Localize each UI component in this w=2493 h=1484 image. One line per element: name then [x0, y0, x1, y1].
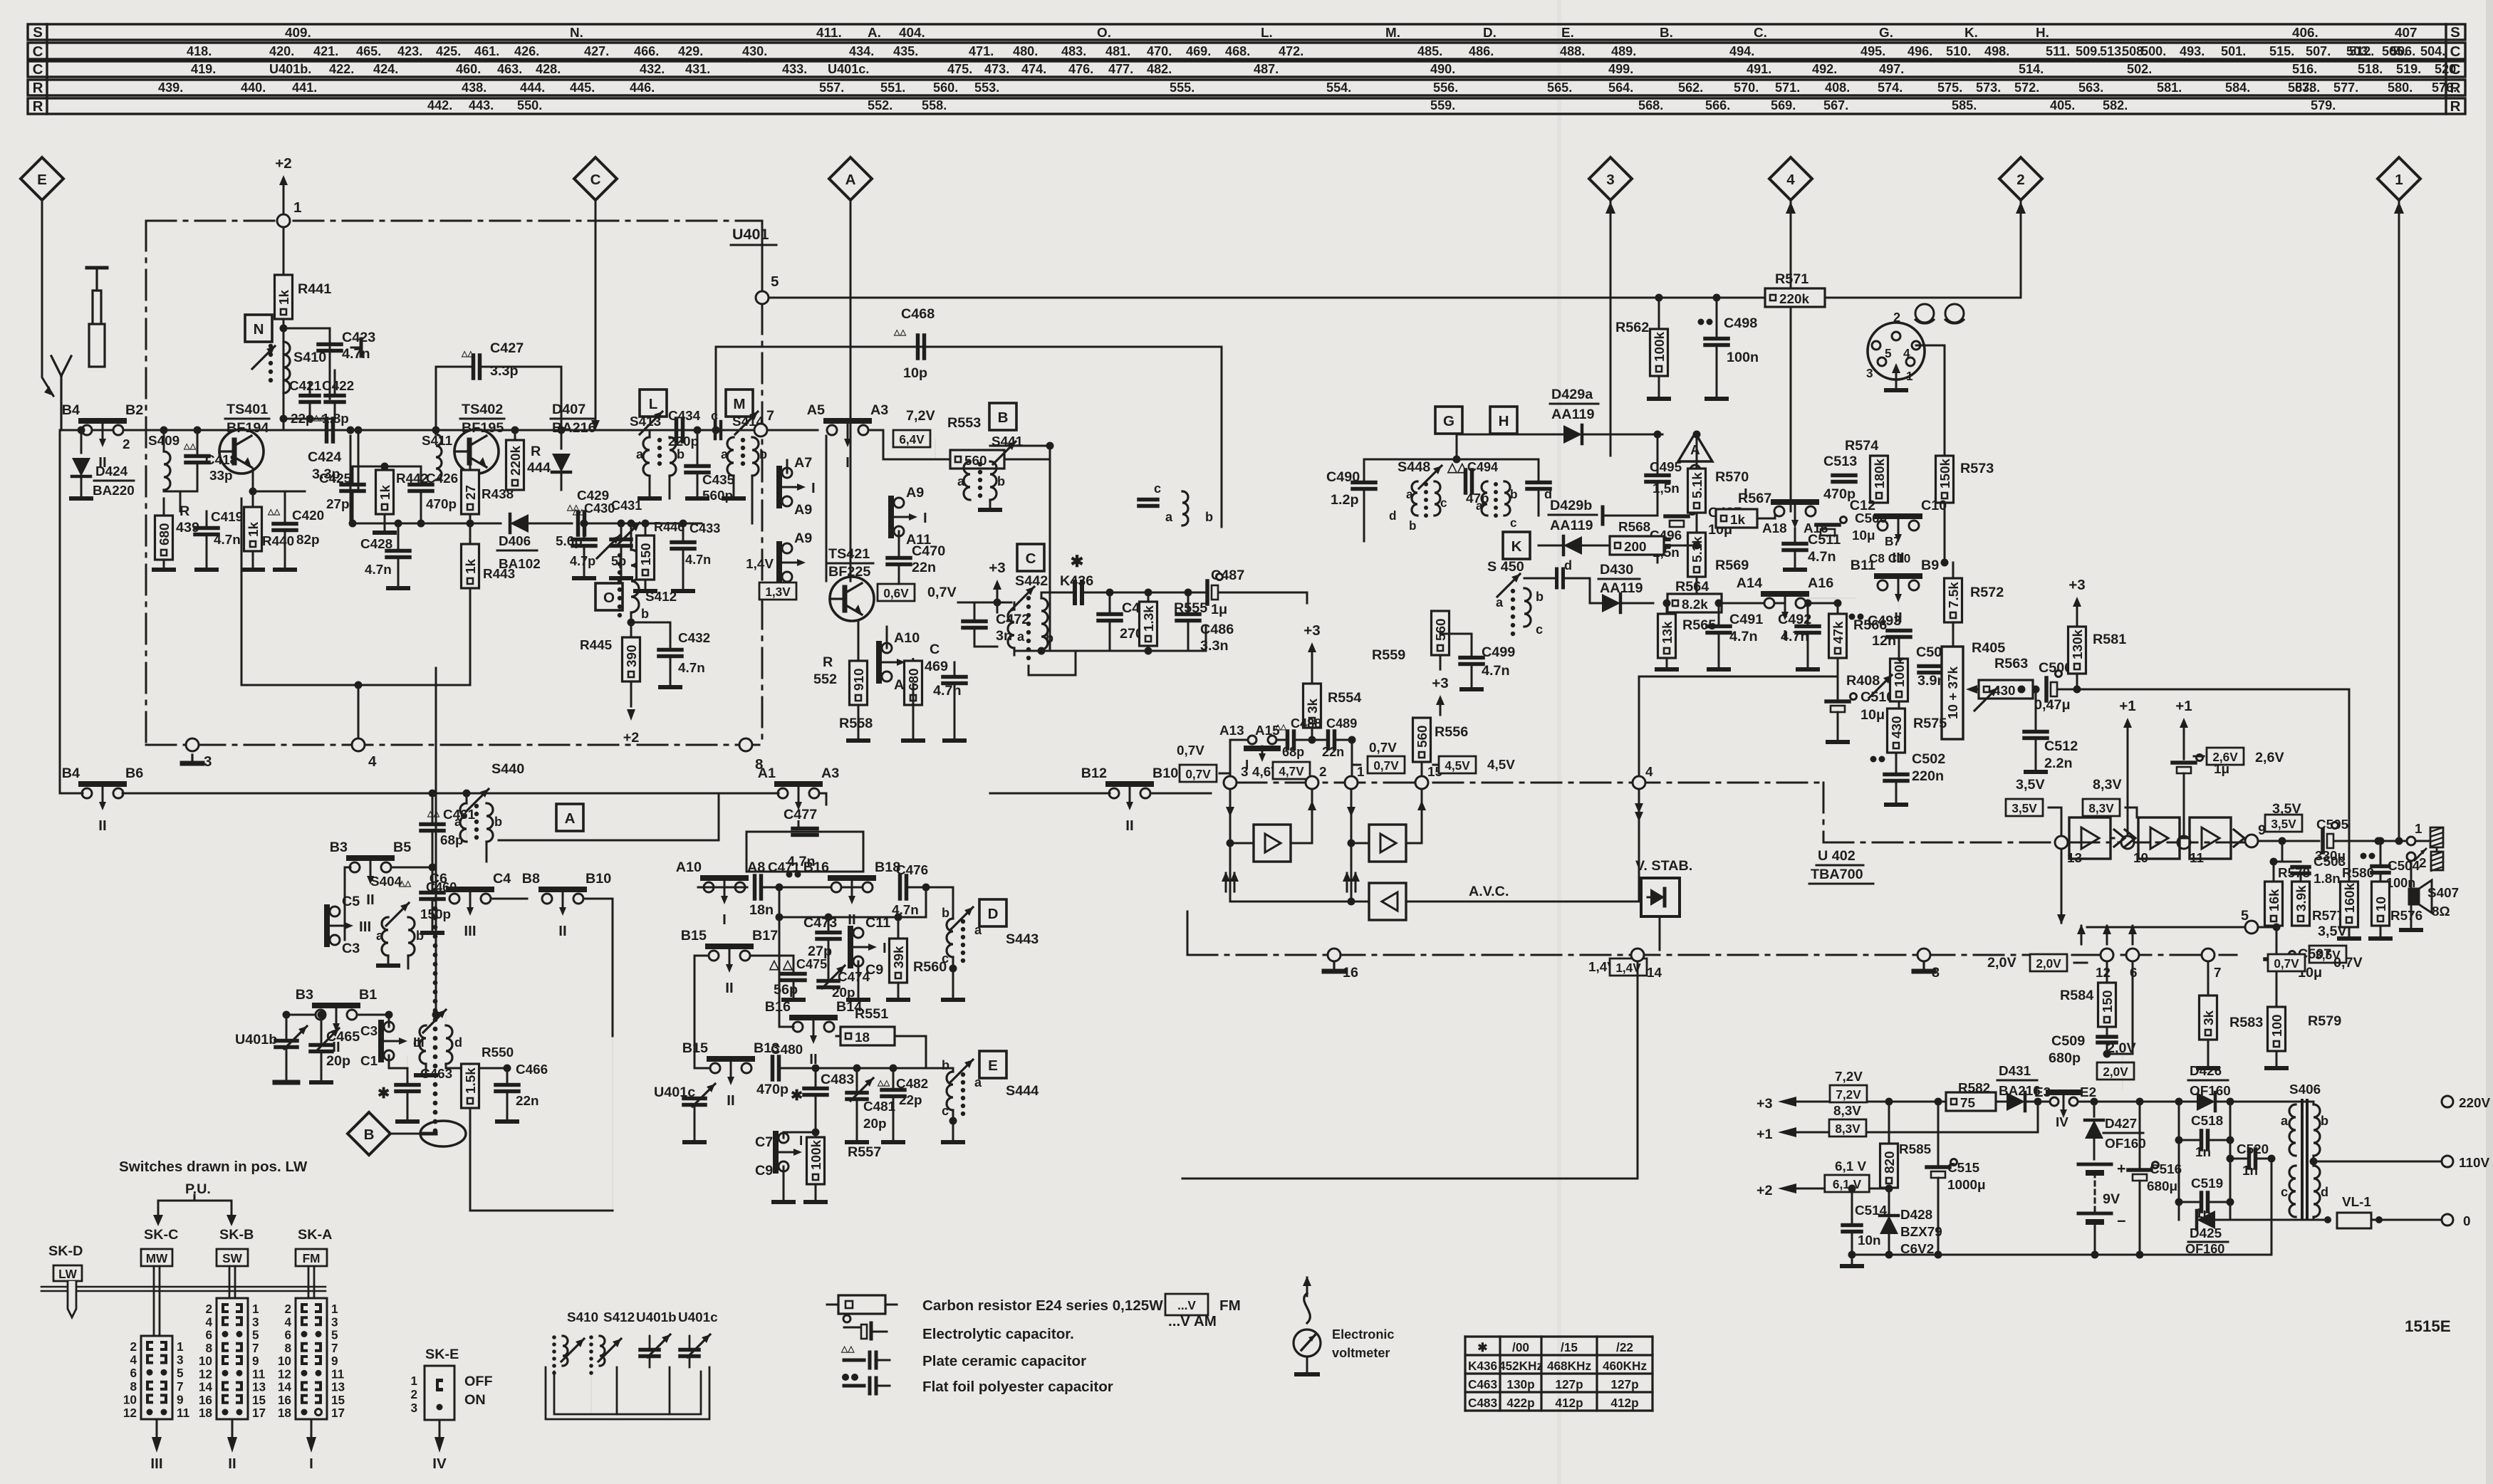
arrow A triangle [1678, 433, 1712, 461]
svg-text:a: a [1476, 498, 1483, 513]
svg-text:445.: 445. [570, 80, 595, 95]
wire to 3 with arrowhead [1610, 200, 1612, 298]
svg-text:485.: 485. [1417, 44, 1442, 58]
svg-text:L.: L. [1261, 26, 1273, 41]
svg-text:2: 2 [410, 1387, 417, 1401]
svg-text:100n: 100n [1727, 350, 1759, 365]
svg-text:480.: 480. [1013, 44, 1038, 58]
svg-text:463.: 463. [497, 62, 522, 76]
svg-text:420.: 420. [269, 44, 294, 58]
svg-text:12: 12 [278, 1367, 291, 1381]
svg-text:431.: 431. [685, 62, 710, 76]
capacitor C504 100n [2361, 853, 2367, 859]
svg-text:3,5V: 3,5V [2011, 801, 2037, 815]
svg-text:4.7p: 4.7p [570, 554, 595, 568]
svg-text:R573: R573 [1960, 461, 1994, 476]
svg-text:563.: 563. [2078, 80, 2103, 95]
resistor R440 1k [244, 507, 262, 551]
svg-text:SK-B: SK-B [219, 1227, 254, 1243]
svg-text:D431: D431 [1999, 1064, 2031, 1079]
svg-text:B4: B4 [62, 765, 80, 781]
node 13 [2055, 836, 2068, 849]
svg-text:II: II [727, 1092, 734, 1109]
svg-text:C431: C431 [611, 498, 642, 513]
component index table [28, 24, 2465, 40]
svg-text:5: 5 [252, 1328, 259, 1342]
electrolytic C500 10u [1816, 523, 1839, 527]
wire from A down [850, 200, 852, 581]
svg-text:1000μ: 1000μ [1947, 1178, 1986, 1193]
svg-text:△ △ C475: △ △ C475 [769, 957, 827, 971]
resistor R560 39k [890, 939, 907, 983]
switch B8-B10 right [542, 894, 552, 904]
svg-text:S: S [2450, 24, 2460, 41]
svg-text:A10: A10 [894, 630, 920, 646]
svg-text:513.: 513. [2100, 44, 2125, 58]
svg-text:△△: △△ [877, 1079, 890, 1087]
svg-text:K.: K. [1964, 26, 1978, 41]
svg-text:68p: 68p [440, 833, 464, 848]
svg-text:418.: 418. [187, 44, 212, 58]
capacitor C469 4.7n [943, 675, 966, 679]
svg-text:486.: 486. [1469, 44, 1494, 58]
resistor R578 16k [2265, 882, 2283, 926]
svg-text:A: A [565, 810, 576, 827]
svg-text:16: 16 [278, 1393, 291, 1407]
svg-text:1k: 1k [1730, 513, 1746, 528]
capacitor C498 100n [1698, 319, 1704, 325]
svg-text:a: a [974, 1075, 982, 1090]
svg-text:A10: A10 [676, 859, 702, 875]
wire +2 to node 1 and R441 [283, 191, 285, 214]
coil S412 with O box [630, 523, 633, 550]
svg-text:2: 2 [130, 1339, 137, 1354]
svg-text:477.: 477. [1108, 62, 1133, 76]
connector diamond 3 [1589, 157, 1632, 200]
svg-text:BF194: BF194 [227, 420, 269, 436]
svg-text:III: III [464, 923, 476, 939]
svg-text:R550: R550 [482, 1045, 514, 1060]
svg-text:4.7n: 4.7n [933, 683, 962, 699]
svg-text:584.: 584. [2225, 80, 2250, 95]
svg-text:433.: 433. [782, 62, 807, 76]
switch B16-B14 [793, 1022, 803, 1032]
svg-text:B17: B17 [752, 928, 778, 944]
svg-text:VL-1: VL-1 [2342, 1195, 2371, 1210]
svg-text:III: III [359, 919, 371, 935]
svg-text:422p: 422p [1506, 1396, 1534, 1410]
svg-text:580.: 580. [2388, 80, 2413, 95]
svg-text:S444: S444 [1006, 1083, 1039, 1099]
svg-text:OF160: OF160 [2190, 1084, 2231, 1099]
svg-text:571.: 571. [1775, 80, 1800, 95]
transformer S444 with E box [979, 1051, 1006, 1078]
svg-text:C7: C7 [755, 1134, 773, 1150]
voltage 4.5V pin 15 [1439, 756, 1476, 773]
svg-text:C.: C. [1754, 26, 1767, 41]
svg-text:C488: C488 [1291, 716, 1321, 731]
trimmer C474 20p [818, 979, 838, 983]
svg-text:12: 12 [123, 1406, 137, 1420]
svg-text:C433: C433 [689, 521, 720, 535]
svg-text:220k: 220k [1779, 292, 1810, 307]
svg-text:d: d [2321, 1185, 2328, 1199]
switch B3-B5 [350, 862, 360, 872]
svg-text:4,5V: 4,5V [1487, 758, 1515, 773]
svg-text:E: E [37, 172, 47, 188]
long vertical from B12 wire [435, 668, 437, 1015]
chevrons between amps [2114, 830, 2125, 847]
contact A9-A11 [894, 498, 904, 508]
svg-text:G: G [1443, 413, 1454, 429]
svg-text:4: 4 [130, 1353, 137, 1367]
capacitor C435 560p [686, 464, 709, 469]
legend electrolytic capacitor [844, 1327, 860, 1329]
svg-text:R551: R551 [855, 1006, 888, 1022]
wire C424 junction down [350, 436, 352, 523]
capacitor C507 10u [2265, 957, 2288, 961]
svg-text:492.: 492. [1812, 62, 1837, 76]
svg-text:9V: 9V [2103, 1191, 2120, 1207]
svg-text:490.: 490. [1430, 62, 1455, 76]
svg-text:150: 150 [2101, 990, 2115, 1013]
svg-text:C516: C516 [2150, 1162, 2182, 1177]
wire R441 to N junction [283, 319, 285, 430]
SK-B stem [229, 1266, 231, 1298]
svg-text:S: S [33, 24, 43, 41]
capacitor C421 [301, 394, 319, 398]
svg-text:b: b [677, 447, 685, 461]
resistor R443 1k [462, 544, 479, 588]
svg-text:I: I [722, 911, 727, 928]
svg-text:564.: 564. [1608, 80, 1633, 95]
svg-text:/22: /22 [1616, 1340, 1633, 1354]
capacitor C512 2.2n [2024, 730, 2047, 734]
diode D427 OF160 [2093, 1102, 2096, 1117]
svg-text:3k: 3k [2202, 1010, 2217, 1025]
svg-text:8: 8 [130, 1379, 137, 1394]
connector diamond A [829, 157, 872, 200]
svg-text:A16: A16 [1808, 575, 1833, 591]
svg-text:407: 407 [2395, 26, 2417, 41]
svg-text:7: 7 [177, 1379, 184, 1394]
svg-text:12: 12 [2096, 966, 2111, 981]
svg-text:MW: MW [146, 1251, 168, 1265]
resistor R572 7.5k [1945, 578, 1962, 622]
svg-text:680μ: 680μ [2147, 1179, 2177, 1194]
svg-text:4.7n: 4.7n [1729, 629, 1758, 644]
svg-text:12n: 12n [1872, 633, 1896, 649]
wire node14 down [1637, 961, 1639, 1179]
svg-text:503.: 503. [2346, 44, 2371, 58]
svg-text:1n: 1n [2242, 1164, 2258, 1179]
svg-text:412p: 412p [1555, 1396, 1583, 1410]
dash-dot bus 3-4 left [146, 744, 759, 746]
svg-text:4.7n: 4.7n [1482, 663, 1510, 679]
svg-text:469: 469 [925, 659, 948, 674]
box letter B [989, 403, 1016, 430]
svg-text:560: 560 [1415, 725, 1430, 748]
connector diamond C [574, 157, 617, 200]
svg-text:R585: R585 [1899, 1142, 1931, 1157]
svg-text:508.: 508. [2122, 44, 2147, 58]
svg-text:R570: R570 [1715, 469, 1749, 485]
switch A18-A16 and C511 [1774, 506, 1784, 516]
svg-text:C481: C481 [863, 1099, 895, 1114]
output jack contacts [2407, 837, 2415, 845]
wires around amplifier 1 [1229, 789, 1232, 894]
svg-text:516.: 516. [2292, 62, 2317, 76]
svg-text:B12: B12 [1081, 765, 1107, 781]
svg-text:U401: U401 [732, 226, 769, 243]
svg-text:435.: 435. [893, 44, 918, 58]
svg-text:B15: B15 [681, 928, 707, 944]
TS401 emitter to ground rail [252, 469, 254, 498]
svg-text:27: 27 [464, 485, 479, 500]
svg-text:C419: C419 [211, 510, 243, 525]
svg-text:495.: 495. [1860, 44, 1885, 58]
capacitor C511 4.7n [1784, 542, 1806, 546]
svg-text:+1: +1 [2119, 698, 2135, 714]
svg-text:820: 820 [1883, 1151, 1898, 1174]
svg-text:8,3V: 8,3V [2088, 801, 2114, 815]
svg-text:b: b [641, 607, 649, 621]
node 3 on IC top rail [1224, 776, 1237, 789]
svg-text:497.: 497. [1879, 62, 1904, 76]
switch bank SK-B contacts [217, 1298, 248, 1419]
svg-text:A9: A9 [794, 502, 812, 518]
svg-text:R405: R405 [1972, 640, 2005, 656]
svg-text:c: c [1440, 496, 1447, 510]
svg-text:474.: 474. [1021, 62, 1046, 76]
svg-text:R441: R441 [298, 281, 331, 297]
svg-text:C491: C491 [1729, 612, 1763, 627]
svg-text:R572: R572 [1970, 585, 2004, 600]
svg-text:1,3V: 1,3V [765, 585, 791, 599]
svg-text:B15: B15 [682, 1040, 708, 1056]
legend flat foil capacitor [842, 1374, 849, 1381]
svg-text:A13: A13 [1219, 723, 1244, 738]
svg-text:16: 16 [199, 1393, 212, 1407]
svg-text:b: b [759, 447, 767, 461]
svg-text:d: d [1389, 508, 1397, 523]
legend resistor symbol [827, 1304, 838, 1306]
svg-text:468.: 468. [1225, 44, 1250, 58]
svg-text:460KHz: 460KHz [1603, 1359, 1647, 1373]
svg-text:R575: R575 [1913, 716, 1947, 731]
svg-text:III: III [150, 1456, 162, 1472]
svg-text:0,6V: 0,6V [883, 586, 909, 600]
left vertical dash-dot rail [145, 221, 147, 745]
svg-text:FM: FM [303, 1251, 321, 1265]
svg-text:C474: C474 [838, 970, 870, 985]
svg-text:444: 444 [527, 460, 551, 476]
svg-text:20p: 20p [326, 1053, 350, 1069]
svg-text:c: c [413, 1035, 420, 1050]
svg-text:0,7V: 0,7V [1373, 758, 1399, 773]
svg-text:17: 17 [331, 1406, 345, 1420]
svg-text:D428: D428 [1900, 1208, 1932, 1223]
node 7 [754, 424, 767, 437]
svg-text:II: II [558, 923, 566, 939]
svg-text:R440: R440 [262, 534, 294, 549]
IC top dash-dot rail [1237, 782, 1823, 784]
svg-text:b: b [942, 1058, 949, 1072]
switch A14-A16 [1764, 598, 1774, 608]
svg-text:4.7n: 4.7n [214, 533, 241, 548]
svg-text:C425: C425 [319, 471, 351, 486]
resistor R557 100k [807, 1137, 825, 1184]
svg-text:R556: R556 [1435, 724, 1468, 740]
node 3 [186, 738, 199, 751]
svg-text:150k: 150k [1938, 458, 1953, 488]
svg-text:555.: 555. [1170, 80, 1195, 95]
svg-text:TS401: TS401 [227, 402, 268, 417]
svg-text:10: 10 [278, 1354, 291, 1368]
svg-text:570.: 570. [1734, 80, 1759, 95]
svg-text:BA102: BA102 [499, 557, 541, 572]
svg-text:430.: 430. [742, 44, 767, 58]
svg-text:8,3V: 8,3V [2093, 777, 2122, 793]
svg-text:D407: D407 [552, 402, 585, 417]
svg-text:II: II [366, 892, 374, 908]
svg-text:551.: 551. [880, 80, 905, 95]
svg-text:493.: 493. [2180, 44, 2205, 58]
svg-text:7,2V: 7,2V [1836, 1087, 1861, 1102]
svg-text:A8: A8 [747, 859, 765, 875]
svg-text:1.2p: 1.2p [1331, 492, 1359, 508]
svg-text:1: 1 [1906, 369, 1913, 383]
svg-text:411.: 411. [816, 26, 842, 41]
node 5 wire [2245, 921, 2258, 934]
svg-text:R559: R559 [1372, 647, 1405, 663]
svg-text:7: 7 [252, 1341, 259, 1355]
svg-text:B3: B3 [296, 987, 313, 1003]
node 2 [1306, 776, 1318, 789]
svg-text:14: 14 [278, 1380, 292, 1394]
svg-text:U 402: U 402 [1818, 848, 1856, 864]
svg-text:160k: 160k [2343, 882, 2358, 913]
svg-text:C470: C470 [912, 543, 945, 559]
svg-text:3: 3 [177, 1353, 184, 1367]
capacitor C428 4.7n [387, 549, 410, 553]
svg-text:A.: A. [868, 26, 881, 41]
svg-text:501.: 501. [2221, 44, 2246, 58]
svg-text:1k: 1k [464, 558, 479, 574]
voltage 0.6V 0.7V [878, 584, 915, 601]
svg-text:3,5V: 3,5V [2016, 777, 2045, 793]
svg-text:A.V.C.: A.V.C. [1469, 884, 1509, 899]
svg-text:6,1 V: 6,1 V [1835, 1159, 1867, 1174]
svg-text:K436: K436 [1468, 1359, 1497, 1373]
svg-text:11: 11 [252, 1367, 266, 1381]
feedback double arrows [1225, 873, 1227, 892]
bottom return wire [1014, 650, 1206, 652]
svg-text:1: 1 [1357, 765, 1365, 780]
svg-text:439.: 439. [158, 80, 183, 95]
contact C11-C9 [853, 928, 863, 938]
svg-text:483.: 483. [1061, 44, 1086, 58]
svg-text:18: 18 [855, 1030, 870, 1045]
svg-text:+2: +2 [623, 730, 640, 746]
svg-text:I: I [883, 940, 887, 956]
svg-text:430: 430 [1993, 684, 2016, 699]
svg-text:511.: 511. [2046, 44, 2070, 58]
svg-text:A3: A3 [821, 765, 839, 781]
svg-text:Flat foil polyester capacitor: Flat foil polyester capacitor [922, 1379, 1113, 1395]
switch E3-E2 mains [2050, 1097, 2059, 1106]
svg-text:7,2V: 7,2V [1835, 1070, 1863, 1085]
svg-text:R: R [33, 98, 43, 115]
C477 4.7n loop [746, 832, 863, 872]
svg-text:C515: C515 [1947, 1161, 1979, 1176]
hatched jack symbol [2430, 827, 2443, 847]
svg-text:573.: 573. [1976, 80, 2001, 95]
svg-text:575.: 575. [1937, 80, 1962, 95]
svg-text:C430: C430 [584, 501, 615, 516]
svg-text:C434: C434 [668, 409, 701, 424]
resistor R573 150k [1936, 456, 1954, 503]
svg-text:2,0V: 2,0V [2036, 956, 2061, 971]
svg-text:421.: 421. [313, 44, 338, 58]
svg-text:10: 10 [123, 1392, 137, 1406]
contact C7-C9 [779, 1133, 789, 1143]
svg-text:c: c [942, 1104, 949, 1118]
resistor C469 680 [905, 661, 922, 705]
capacitor C491 4.7n [1715, 600, 1723, 607]
transformer H coils [1482, 481, 1487, 516]
svg-text:4.7n: 4.7n [365, 563, 392, 578]
svg-text:R560: R560 [913, 959, 947, 975]
svg-text:1n: 1n [2195, 1145, 2211, 1160]
svg-text:B.: B. [1660, 26, 1673, 41]
SK-C stem [153, 1266, 155, 1336]
coil S410 with core arrow [283, 342, 290, 393]
svg-text:466.: 466. [634, 44, 659, 58]
svg-text:BF195: BF195 [462, 420, 504, 436]
svg-text:5: 5 [177, 1366, 184, 1380]
svg-text:579.: 579. [2311, 98, 2336, 113]
main left wire FM input [60, 429, 800, 432]
ground under R439 [163, 560, 165, 570]
capacitor C473 27p [817, 931, 840, 935]
svg-text:a: a [957, 474, 965, 488]
svg-text:△△: △△ [893, 328, 907, 337]
svg-text:+3: +3 [1432, 675, 1448, 691]
svg-text:SW: SW [222, 1251, 242, 1265]
trimmer C481 20p [853, 1065, 861, 1072]
svg-text:C432: C432 [678, 631, 710, 646]
svg-text:C520: C520 [2237, 1142, 2269, 1157]
svg-text:481.: 481. [1105, 44, 1130, 58]
svg-text:2: 2 [123, 437, 130, 452]
capacitor C427 3.3p [476, 429, 478, 430]
svg-text:C: C [33, 61, 43, 78]
svg-text:556.: 556. [1433, 80, 1458, 95]
svg-text:A14: A14 [1737, 575, 1762, 591]
capacitor C502 220n [1870, 756, 1877, 763]
svg-text:−: − [2117, 1213, 2126, 1230]
svg-text:9: 9 [331, 1354, 338, 1368]
resistor R580 160k [2341, 882, 2358, 927]
svg-text:R553: R553 [947, 415, 981, 431]
S442 dotted core [1026, 596, 1031, 600]
wire to 2 [2020, 200, 2022, 298]
svg-text:7,2V: 7,2V [906, 408, 935, 424]
svg-text:B10: B10 [585, 871, 611, 887]
svg-text:✱: ✱ [378, 1085, 390, 1102]
svg-text:I: I [1783, 627, 1787, 644]
